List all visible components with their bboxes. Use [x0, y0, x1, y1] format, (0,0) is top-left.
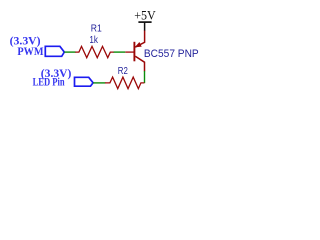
svg-text:1k: 1k	[89, 35, 98, 46]
svg-text:PWM: PWM	[17, 46, 43, 58]
svg-text:LED Pin: LED Pin	[33, 76, 65, 88]
svg-text:+5V: +5V	[134, 8, 156, 22]
svg-text:R2: R2	[118, 66, 128, 77]
svg-text:R1: R1	[91, 24, 102, 35]
svg-text:BC557 PNP: BC557 PNP	[144, 48, 199, 60]
